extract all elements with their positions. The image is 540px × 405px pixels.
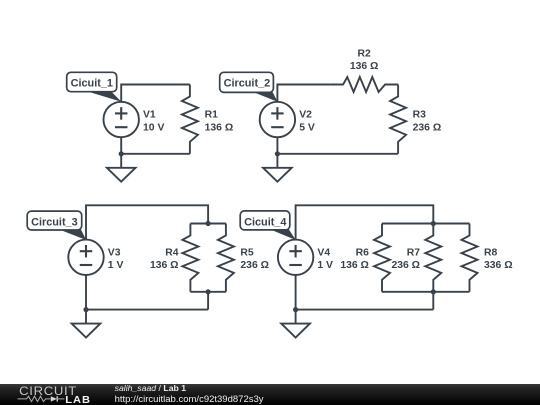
resistor R3 bbox=[390, 85, 406, 154]
voltage source V1 bbox=[104, 102, 139, 137]
svg-text:136 Ω: 136 Ω bbox=[205, 122, 234, 133]
resistor R4 bbox=[182, 224, 198, 292]
svg-text:LAB: LAB bbox=[65, 394, 91, 405]
wire: R6 R7 R8 top bracket bbox=[382, 223, 470, 225]
footer title: salih_saad / Lab 1 bbox=[115, 383, 187, 393]
svg-text:236 Ω: 236 Ω bbox=[391, 260, 420, 271]
wire: V4 top rail to parallel group bbox=[296, 205, 434, 239]
svg-text:336 Ω: 336 Ω bbox=[484, 260, 513, 271]
svg-text:R4: R4 bbox=[165, 247, 179, 258]
svg-text:236 Ω: 236 Ω bbox=[240, 260, 269, 271]
svg-text:V4: V4 bbox=[317, 247, 330, 258]
annotation callout Circuit_3 bbox=[27, 211, 86, 240]
label R1 136 Ω bbox=[205, 110, 234, 134]
wire: R4 R5 top bracket bbox=[190, 223, 226, 225]
voltage source V4 bbox=[278, 240, 313, 275]
footer url http://circuitlab.com/c92t39d872s3y bbox=[115, 394, 264, 405]
svg-text:V3: V3 bbox=[108, 247, 121, 258]
wire: R6 R7 R8 bottom bracket bbox=[382, 291, 470, 293]
svg-text:R3: R3 bbox=[413, 110, 427, 121]
svg-text:136 Ω: 136 Ω bbox=[340, 260, 369, 271]
resistor R7 bbox=[425, 224, 441, 292]
node dot bracket top circuit 3 bbox=[206, 221, 211, 226]
annotation callout Cicuit_1 bbox=[67, 72, 122, 101]
svg-text:V1: V1 bbox=[143, 110, 156, 121]
wire: circuit 4 bottom rail bbox=[296, 309, 434, 311]
logo wordmark LAB bbox=[65, 394, 91, 405]
wire: bracket to circuit 4 bottom rail bbox=[432, 292, 434, 310]
resistor R6 bbox=[374, 224, 390, 292]
label R6 136 Ω bbox=[340, 247, 369, 271]
resistor R8 bbox=[462, 224, 478, 292]
wire: V4 bottom to node bbox=[295, 275, 297, 310]
svg-text:236 Ω: 236 Ω bbox=[413, 122, 442, 133]
wire: circuit 1 bottom rail bbox=[121, 153, 190, 155]
node dot bracket bottom circuit 4 bbox=[431, 289, 436, 294]
wire: bracket to circuit 3 bottom rail bbox=[207, 292, 209, 310]
ground G4 bbox=[281, 310, 310, 338]
wire: V1 bottom to node bbox=[120, 137, 122, 154]
node junction dot circuit 1 bbox=[119, 151, 124, 156]
node dot bracket top circuit 4 bbox=[431, 221, 436, 226]
logo resistor squiggle bbox=[18, 396, 51, 401]
voltage source V3 bbox=[68, 240, 103, 275]
logo diode symbol bbox=[51, 396, 65, 401]
CircuitLab logo wordmark CIRCUIT bbox=[19, 385, 77, 398]
label R3 236 Ω bbox=[413, 110, 442, 134]
svg-text:http://circuitlab.com/c92t39d8: http://circuitlab.com/c92t39d872s3y bbox=[115, 394, 264, 405]
svg-text:136 Ω: 136 Ω bbox=[150, 260, 179, 271]
resistor R5 bbox=[218, 224, 234, 292]
label V3 1 V bbox=[108, 247, 124, 271]
svg-text:salih_saad / Lab 1: salih_saad / Lab 1 bbox=[115, 383, 187, 393]
label V2 5 V bbox=[299, 110, 315, 134]
svg-text:Circuit_2: Circuit_2 bbox=[224, 78, 271, 90]
resistor R2 bbox=[330, 77, 398, 92]
svg-text:R1: R1 bbox=[205, 110, 219, 121]
svg-text:1 V: 1 V bbox=[317, 260, 333, 271]
svg-text:R5: R5 bbox=[240, 247, 254, 258]
annotation callout Circuit_2 bbox=[220, 72, 278, 101]
svg-text:136 Ω: 136 Ω bbox=[350, 61, 379, 72]
svg-text:5 V: 5 V bbox=[299, 122, 315, 133]
svg-text:10 V: 10 V bbox=[143, 122, 164, 133]
label V1 10 V bbox=[143, 110, 164, 134]
ground G3 bbox=[72, 310, 101, 338]
svg-text:Cicuit_1: Cicuit_1 bbox=[71, 78, 113, 90]
voltage source V2 bbox=[260, 102, 295, 137]
svg-text:V2: V2 bbox=[299, 110, 312, 121]
resistor R1 bbox=[182, 85, 198, 154]
label V4 1 V bbox=[317, 247, 333, 271]
svg-text:R7: R7 bbox=[407, 247, 421, 258]
node dot circuit 4 ground bbox=[293, 307, 298, 312]
wire: V2 top rail bbox=[277, 85, 330, 102]
wire: V3 top rail to parallel pair bbox=[86, 205, 208, 239]
wire: circuit 2 bottom rail bbox=[277, 153, 398, 155]
svg-text:R8: R8 bbox=[484, 247, 498, 258]
wire: V3 bottom to node bbox=[85, 275, 87, 310]
label R2 136 Ω bbox=[350, 48, 379, 72]
svg-text:Circuit_3: Circuit_3 bbox=[31, 217, 78, 229]
ground G1 bbox=[107, 154, 136, 182]
label R8 336 Ω bbox=[484, 247, 513, 271]
wire: R4 R5 bottom bracket bbox=[190, 291, 226, 293]
annotation callout Cicuit_4 bbox=[240, 211, 296, 240]
node dot bracket bottom circuit 3 bbox=[206, 289, 211, 294]
wire: V2 bottom to node bbox=[276, 137, 278, 154]
wire: circuit 3 bottom rail bbox=[86, 309, 208, 311]
label R5 236 Ω bbox=[240, 247, 269, 271]
svg-text:R6: R6 bbox=[356, 247, 370, 258]
ground G2 bbox=[263, 154, 292, 182]
svg-text:R2: R2 bbox=[357, 48, 371, 59]
footer bar bbox=[0, 384, 540, 405]
node junction dot circuit 2 bbox=[275, 151, 280, 156]
svg-text:Cicuit_4: Cicuit_4 bbox=[244, 216, 286, 228]
label R4 136 Ω bbox=[150, 247, 179, 271]
label R7 236 Ω bbox=[391, 247, 420, 271]
node dot circuit 3 ground bbox=[83, 307, 88, 312]
wire: V1 top to R1 top rail bbox=[121, 85, 190, 102]
svg-text:1 V: 1 V bbox=[108, 260, 124, 271]
